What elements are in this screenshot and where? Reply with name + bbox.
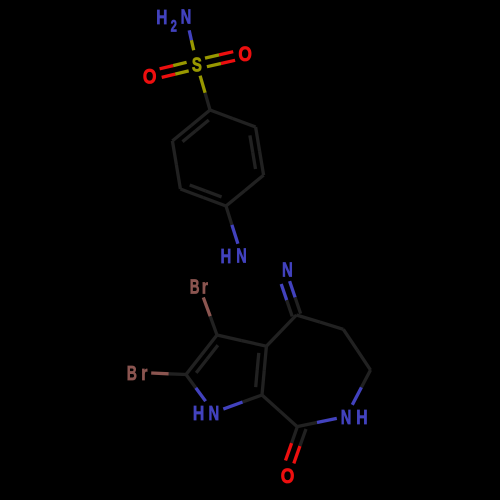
svg-text:H: H	[221, 246, 232, 268]
svg-text:O: O	[238, 43, 252, 66]
bond C2-Br lower	[151, 373, 186, 375]
svg-text:O: O	[281, 465, 295, 488]
svg-text:r: r	[202, 276, 208, 298]
bond benzene C4 to hydrazone NH	[226, 206, 238, 244]
bond C2-N1 pyrrole	[186, 375, 206, 402]
atom label H2N sulfonamide nitrogen	[156, 7, 191, 36]
svg-text:N: N	[209, 403, 220, 425]
svg-text:B: B	[190, 276, 200, 298]
double bond C8=O carbonyl	[286, 426, 307, 464]
double bond S=O right	[205, 52, 235, 67]
atom label S sulfur	[192, 55, 202, 77]
atom label O right sulfonyl oxygen	[238, 43, 252, 66]
double bond S=O left	[160, 62, 189, 77]
atom label O carbonyl oxygen	[281, 465, 295, 488]
aromatic bond C3=C4 benzene	[180, 185, 226, 206]
bond C3a-C3 pyrrole	[217, 335, 266, 346]
atom label Br upper bromine	[190, 276, 208, 298]
svg-text:r: r	[141, 363, 147, 385]
bond C6-N7 azepine	[352, 370, 370, 405]
atom label HN hydrazone NH	[221, 246, 247, 269]
aromatic bond C6-C1 benzene	[210, 110, 256, 127]
svg-text:S: S	[192, 55, 202, 77]
svg-text:O: O	[143, 65, 157, 88]
bond N1-C8a pyrrole	[223, 395, 262, 409]
svg-text:N: N	[236, 246, 247, 268]
svg-text:N: N	[282, 260, 293, 282]
svg-text:B: B	[127, 363, 137, 385]
atom label Br lower bromine	[127, 363, 148, 385]
aromatic bond C8a=C3a fusion	[256, 346, 267, 395]
aromatic bond C2-C3 benzene	[172, 141, 180, 189]
aromatic bond C3=C2 pyrrole	[186, 335, 218, 375]
double bond N=C4 hydrazone	[281, 281, 300, 316]
svg-text:H: H	[356, 407, 367, 429]
aromatic bond C4-C5 benzene	[226, 175, 264, 206]
bond C8-C8a azepine	[262, 395, 297, 427]
atom label N hydrazone imine nitrogen	[282, 260, 293, 282]
svg-text:N: N	[341, 407, 352, 429]
svg-text:N: N	[181, 7, 192, 29]
bond N7-C8 amide	[297, 418, 337, 426]
aromatic bond C1=C2 benzene	[172, 110, 210, 142]
bond C3a-C4	[266, 315, 296, 346]
svg-text:H: H	[193, 403, 204, 425]
bond N-S (sulfonamide N to S)	[189, 30, 194, 50]
atom label HN pyrrole NH	[193, 403, 219, 425]
svg-text:2: 2	[171, 17, 177, 35]
bond C3-Br upper	[203, 297, 217, 335]
bond C5-C6 azepine	[343, 329, 370, 370]
svg-text:H: H	[156, 7, 167, 29]
atom label O left sulfonyl oxygen	[143, 65, 157, 88]
bond S-C1 (S to benzene)	[200, 76, 210, 110]
aromatic bond C5=C6 benzene	[250, 127, 264, 175]
atom label NH lactam NH	[341, 407, 368, 429]
bond NH-N hydrazine (drawn black)	[251, 258, 278, 266]
bond C4-C5 azepine	[296, 315, 343, 329]
